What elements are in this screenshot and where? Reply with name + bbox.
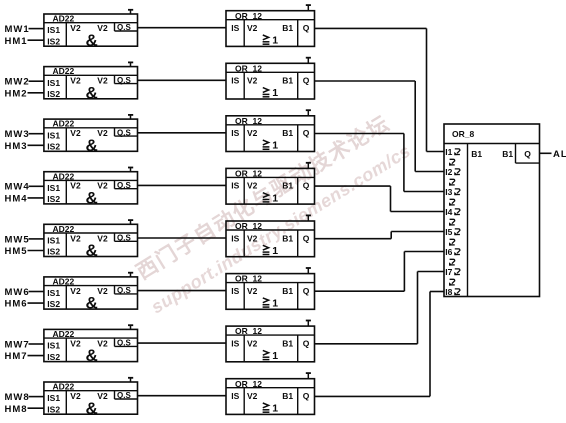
- svg-text:V2: V2: [70, 233, 81, 243]
- svg-text:IS: IS: [231, 76, 239, 86]
- OR_8 input label I2: [445, 167, 460, 177]
- svg-text:IS: IS: [231, 391, 239, 401]
- OR_8 interconnection arrow between I3 and I4: [449, 199, 455, 205]
- OR_8 interconnection arrow between I2 and I3: [449, 179, 455, 185]
- wire AD22 Q to OR_12 IS row 4: [138, 184, 227, 186]
- svg-text:IS: IS: [231, 338, 239, 348]
- svg-text:OR_12: OR_12: [235, 116, 262, 126]
- AND gate AD22 row 5: [44, 224, 138, 260]
- wire HM8 to AD22 IS2: [28, 407, 44, 409]
- row 3: input MW3: [5, 129, 30, 140]
- OR_8 interconnection arrow between I4 and I5: [449, 219, 455, 225]
- svg-text:HM4: HM4: [5, 194, 28, 205]
- wire OR_12 Q row 1 to OR_8 input I1: [315, 28, 445, 151]
- svg-text:MW6: MW6: [5, 287, 30, 298]
- svg-text:IS1: IS1: [47, 288, 60, 298]
- svg-text:B1: B1: [282, 181, 293, 191]
- svg-text:B1: B1: [282, 338, 293, 348]
- svg-text:Q: Q: [303, 286, 310, 296]
- svg-text:Q.S: Q.S: [117, 339, 131, 348]
- svg-text:IS2: IS2: [47, 194, 60, 204]
- wire OR_12 Q row 7 to OR_8 input I7: [315, 272, 445, 344]
- OR_8 input label I7: [445, 267, 460, 277]
- row 4: input MW4: [5, 182, 30, 193]
- row 5: input MW5: [5, 234, 30, 245]
- svg-text:V2: V2: [247, 128, 258, 138]
- wire OR_12 Q row 3 to OR_8 input I3: [315, 134, 445, 192]
- svg-text:MW2: MW2: [5, 77, 30, 88]
- svg-text:IS: IS: [231, 23, 239, 33]
- OR gate OR_12 row 7: [226, 326, 315, 362]
- svg-text:IS2: IS2: [47, 404, 60, 414]
- wire MW8 to AD22 IS1: [29, 396, 44, 398]
- wire OR_12 Q row 2 to OR_8 input I2: [315, 81, 445, 172]
- svg-text:V2: V2: [97, 391, 108, 401]
- watermark: support url: [148, 140, 415, 317]
- wire OR_8 Q to AL: [540, 152, 552, 154]
- wire AD22 Q to OR_12 IS row 2: [138, 79, 227, 81]
- svg-text:&: &: [86, 136, 98, 155]
- AND gate AD22 row 3: [44, 119, 138, 155]
- wire OR_12 Q row 5 to OR_8 input I5: [315, 232, 445, 239]
- AND gate AD22 row 1: [44, 14, 138, 50]
- svg-text:B1: B1: [282, 23, 293, 33]
- svg-text:HM3: HM3: [5, 141, 28, 152]
- svg-text:Q.S: Q.S: [117, 391, 131, 400]
- svg-text:IS1: IS1: [47, 78, 60, 88]
- svg-text:1: 1: [272, 192, 278, 204]
- svg-text:V2: V2: [247, 76, 258, 86]
- OR gate OR_8: [444, 124, 540, 297]
- svg-text:IS: IS: [231, 128, 239, 138]
- row 1: input HM1: [5, 36, 28, 47]
- svg-text:MW5: MW5: [5, 234, 30, 245]
- svg-text:B1: B1: [471, 149, 482, 159]
- OR gate OR_12 row 5: [226, 221, 315, 257]
- svg-text:B1: B1: [282, 286, 293, 296]
- svg-text:Q.S: Q.S: [117, 181, 131, 190]
- svg-text:&: &: [86, 241, 98, 260]
- svg-text:IS1: IS1: [47, 341, 60, 351]
- AND gate AD22 row 2: [44, 66, 138, 102]
- wire HM2 to AD22 IS2: [28, 92, 44, 94]
- T mark above AD22 row 2: [128, 62, 133, 67]
- OR_8 input label I3: [445, 187, 460, 197]
- svg-text:&: &: [86, 294, 98, 313]
- row 4: input HM4: [5, 194, 28, 205]
- OR_8 input label I4: [445, 207, 460, 217]
- svg-text:I8: I8: [445, 287, 452, 297]
- svg-text:V2: V2: [247, 338, 258, 348]
- T mark above OR_12 row 5: [306, 215, 311, 221]
- svg-text:IS: IS: [231, 233, 239, 243]
- wire AD22 Q to OR_12 IS row 7: [138, 342, 227, 344]
- svg-text:1: 1: [272, 140, 278, 152]
- svg-text:HM5: HM5: [5, 246, 28, 257]
- OR_8 input label I1: [445, 147, 460, 157]
- T mark above OR_12 row 1: [306, 5, 311, 11]
- wire OR_12 Q row 4 to OR_8 input I4: [315, 186, 445, 211]
- OR gate OR_12 row 3: [226, 116, 315, 152]
- wire OR_12 Q row 6 to OR_8 input I6: [315, 252, 445, 292]
- svg-text:OR_12: OR_12: [235, 11, 262, 21]
- svg-text:OR_12: OR_12: [235, 63, 262, 73]
- OR_8 interconnection arrow between I1 and I2: [449, 159, 455, 165]
- row 3: input HM3: [5, 141, 28, 152]
- T mark above AD22 row 7: [128, 325, 133, 330]
- svg-text:Q: Q: [303, 233, 310, 243]
- svg-text:MW4: MW4: [5, 182, 30, 193]
- svg-text:V2: V2: [97, 76, 108, 86]
- svg-text:V2: V2: [70, 23, 81, 33]
- svg-text:Q.S: Q.S: [117, 76, 131, 85]
- svg-text:V2: V2: [97, 233, 108, 243]
- OR_8 input label I5: [445, 227, 460, 237]
- svg-text:V2: V2: [70, 286, 81, 296]
- svg-text:HM6: HM6: [5, 299, 28, 310]
- svg-text:IS: IS: [231, 286, 239, 296]
- svg-text:OR_12: OR_12: [235, 379, 262, 389]
- svg-text:B1: B1: [282, 76, 293, 86]
- T mark above AD22 row 6: [128, 272, 133, 277]
- svg-text:HM2: HM2: [5, 88, 28, 99]
- wire MW5 to AD22 IS1: [29, 238, 44, 240]
- row 8: input HM8: [5, 404, 28, 415]
- svg-text:B1: B1: [502, 149, 513, 159]
- svg-text:AL: AL: [553, 149, 566, 160]
- OR_8 interconnection arrow between I5 and I6: [449, 239, 455, 245]
- svg-text:IS2: IS2: [47, 36, 60, 46]
- OR gate OR_12 row 4: [226, 168, 315, 204]
- OR_8 input label I6: [445, 247, 460, 257]
- svg-text:I7: I7: [445, 267, 452, 277]
- OR gate OR_12 row 8: [226, 379, 315, 415]
- svg-text:V2: V2: [70, 338, 81, 348]
- svg-text:B1: B1: [282, 128, 293, 138]
- svg-text:V2: V2: [247, 391, 258, 401]
- svg-text:V2: V2: [247, 23, 258, 33]
- T mark above AD22 row 5: [128, 220, 133, 225]
- svg-text:1: 1: [272, 35, 278, 47]
- wire HM1 to AD22 IS2: [28, 39, 44, 41]
- svg-text:Q: Q: [524, 149, 531, 159]
- svg-text:IS1: IS1: [47, 236, 60, 246]
- AND gate AD22 row 6: [44, 277, 138, 313]
- svg-text:&: &: [86, 189, 98, 208]
- wire AD22 Q to OR_12 IS row 3: [138, 132, 227, 134]
- svg-text:OR_8: OR_8: [452, 129, 474, 139]
- svg-text:V2: V2: [97, 338, 108, 348]
- wire MW4 to AD22 IS1: [29, 185, 44, 187]
- wire MW3 to AD22 IS1: [29, 133, 44, 135]
- wire HM6 to AD22 IS2: [28, 302, 44, 304]
- wire MW2 to AD22 IS1: [29, 80, 44, 82]
- wire AD22 Q to OR_12 IS row 6: [138, 290, 227, 292]
- svg-text:Q.S: Q.S: [117, 234, 131, 243]
- svg-text:Q.S: Q.S: [117, 128, 131, 137]
- wire HM3 to AD22 IS2: [28, 144, 44, 146]
- svg-text:MW1: MW1: [5, 24, 30, 35]
- svg-text:MW8: MW8: [5, 392, 30, 403]
- OR gate OR_12 row 2: [226, 63, 315, 99]
- T mark above OR_12 row 7: [306, 320, 311, 326]
- svg-text:1: 1: [272, 245, 278, 257]
- wire MW1 to AD22 IS1: [29, 28, 44, 30]
- AND gate AD22 row 4: [44, 171, 138, 207]
- svg-text:MW7: MW7: [5, 339, 30, 350]
- svg-text:V2: V2: [70, 181, 81, 191]
- svg-text:1: 1: [272, 87, 278, 99]
- svg-text:Q: Q: [303, 23, 310, 33]
- svg-text:HM7: HM7: [5, 351, 28, 362]
- svg-text:I2: I2: [445, 167, 452, 177]
- svg-text:MW3: MW3: [5, 129, 30, 140]
- row 7: input MW7: [5, 339, 30, 350]
- svg-text:I3: I3: [445, 187, 452, 197]
- row 5: input HM5: [5, 246, 28, 257]
- svg-text:IS2: IS2: [47, 299, 60, 309]
- T mark above OR_12 row 4: [306, 163, 311, 169]
- wire HM5 to AD22 IS2: [28, 250, 44, 252]
- T mark above OR_12 row 3: [306, 110, 311, 116]
- svg-text:&: &: [86, 31, 98, 50]
- svg-text:&: &: [86, 346, 98, 365]
- wire AD22 Q to OR_12 IS row 8: [138, 395, 227, 397]
- svg-text:V2: V2: [247, 286, 258, 296]
- T mark above AD22 row 1: [128, 10, 133, 15]
- wire HM7 to AD22 IS2: [28, 355, 44, 357]
- svg-text:B1: B1: [282, 233, 293, 243]
- svg-text:1: 1: [272, 403, 278, 415]
- svg-text:V2: V2: [70, 76, 81, 86]
- OR_8 input label I8: [445, 287, 460, 297]
- svg-text:IS2: IS2: [47, 142, 60, 152]
- svg-text:I1: I1: [445, 147, 452, 157]
- svg-text:1: 1: [272, 298, 278, 310]
- svg-text:IS2: IS2: [47, 89, 60, 99]
- row 6: input MW6: [5, 287, 30, 298]
- svg-text:IS1: IS1: [47, 183, 60, 193]
- output label AL: [553, 149, 566, 160]
- svg-text:IS1: IS1: [47, 130, 60, 140]
- wire OR_12 Q row 8 to OR_8 input I8: [315, 292, 445, 397]
- svg-text:V2: V2: [247, 181, 258, 191]
- svg-text:IS2: IS2: [47, 247, 60, 257]
- svg-text:V2: V2: [70, 128, 81, 138]
- svg-text:Q: Q: [303, 76, 310, 86]
- wire MW7 to AD22 IS1: [29, 343, 44, 345]
- svg-text:I4: I4: [445, 207, 452, 217]
- svg-text:Q: Q: [303, 391, 310, 401]
- T mark above AD22 row 3: [128, 115, 133, 120]
- wire AD22 Q to OR_12 IS row 1: [138, 27, 227, 29]
- svg-text:I6: I6: [445, 247, 452, 257]
- wire HM4 to AD22 IS2: [28, 197, 44, 199]
- wire AD22 Q to OR_12 IS row 5: [138, 237, 227, 239]
- svg-text:V2: V2: [97, 181, 108, 191]
- svg-text:B1: B1: [282, 391, 293, 401]
- svg-text:V2: V2: [70, 391, 81, 401]
- OR gate OR_12 row 1: [226, 11, 315, 47]
- AND gate AD22 row 8: [44, 382, 138, 418]
- OR gate OR_12 row 6: [226, 274, 315, 310]
- T mark above AD22 row 4: [128, 167, 133, 172]
- svg-text:V2: V2: [97, 286, 108, 296]
- svg-text:OR_12: OR_12: [235, 221, 262, 231]
- svg-text:V2: V2: [97, 23, 108, 33]
- T mark above OR_12 row 2: [306, 57, 311, 63]
- OR_8 interconnection arrow between I7 and I8: [449, 279, 455, 285]
- watermark: forum Chinese text: [132, 111, 394, 284]
- T mark above AD22 row 8: [128, 378, 133, 383]
- row 2: input MW2: [5, 77, 30, 88]
- svg-text:HM1: HM1: [5, 36, 28, 47]
- svg-text:&: &: [86, 83, 98, 102]
- row 8: input MW8: [5, 392, 30, 403]
- svg-text:OR_12: OR_12: [235, 169, 262, 179]
- svg-text:IS1: IS1: [47, 25, 60, 35]
- svg-text:Q: Q: [303, 128, 310, 138]
- T mark above OR_12 row 6: [306, 268, 311, 274]
- svg-text:Q.S: Q.S: [117, 286, 131, 295]
- svg-text:IS2: IS2: [47, 352, 60, 362]
- svg-text:HM8: HM8: [5, 404, 28, 415]
- svg-text:V2: V2: [97, 128, 108, 138]
- wire MW6 to AD22 IS1: [29, 291, 44, 293]
- row 1: input MW1: [5, 24, 30, 35]
- svg-text:IS1: IS1: [47, 393, 60, 403]
- svg-text:1: 1: [272, 350, 278, 362]
- svg-text:I5: I5: [445, 227, 452, 237]
- AND gate AD22 row 7: [44, 329, 138, 365]
- svg-text:&: &: [86, 399, 98, 418]
- row 2: input HM2: [5, 88, 28, 99]
- OR_8 interconnection arrow between I6 and I7: [449, 259, 455, 265]
- row 6: input HM6: [5, 299, 28, 310]
- svg-text:OR_12: OR_12: [235, 274, 262, 284]
- svg-text:OR_12: OR_12: [235, 326, 262, 336]
- T mark above OR_12 row 8: [306, 373, 311, 379]
- svg-text:Q.S: Q.S: [117, 23, 131, 32]
- svg-text:Q: Q: [303, 181, 310, 191]
- svg-text:IS: IS: [231, 181, 239, 191]
- svg-text:V2: V2: [247, 233, 258, 243]
- svg-text:Q: Q: [303, 338, 310, 348]
- row 7: input HM7: [5, 351, 28, 362]
